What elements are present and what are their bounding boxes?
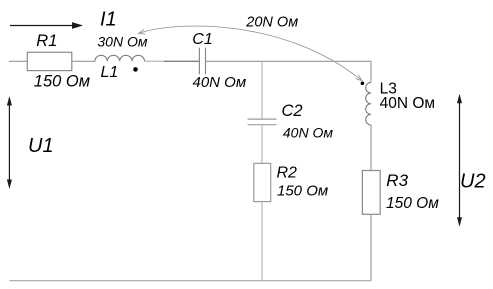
capacitor C2 — [248, 119, 277, 125]
svg-text:U1: U1 — [28, 135, 54, 157]
svg-text:40N Ом: 40N Ом — [193, 74, 247, 91]
svg-text:20N Ом: 20N Ом — [245, 14, 298, 30]
svg-text:R1: R1 — [36, 32, 57, 50]
voltage arrow U2 — [457, 94, 462, 227]
wire R2 to bottom — [261, 202, 263, 281]
svg-text:R3: R3 — [386, 171, 408, 190]
inductor L3 — [366, 82, 371, 125]
arc arrowhead left — [139, 29, 146, 34]
wire L1 to C1 — [145, 60, 165, 62]
svg-text:30N Ом: 30N Ом — [97, 34, 147, 50]
wire L3 to R3 — [370, 125, 372, 171]
wire segment to C1 — [164, 60, 199, 62]
svg-text:I1: I1 — [100, 9, 117, 31]
resistor R1 — [27, 52, 72, 70]
wire R3 to bottom — [370, 214, 372, 280]
polarity dot (L3) — [361, 82, 365, 86]
svg-text:40N Ом: 40N Ом — [283, 124, 333, 140]
arc arrowhead right — [355, 75, 362, 81]
inductor L1 — [95, 55, 145, 61]
wire right vertical top — [370, 61, 372, 82]
wire top-left — [9, 60, 27, 62]
resistor R3 — [362, 171, 380, 215]
voltage arrow U1 — [7, 96, 12, 189]
capacitor C1 — [199, 48, 205, 75]
resistor R2 — [254, 163, 271, 201]
svg-text:150 Ом: 150 Ом — [34, 73, 90, 91]
svg-text:R2: R2 — [277, 164, 298, 181]
svg-text:C2: C2 — [282, 102, 303, 120]
wire middle branch top — [261, 61, 263, 119]
svg-text:150 Ом: 150 Ом — [386, 195, 439, 212]
current arrow I1 — [10, 22, 83, 29]
svg-text:C1: C1 — [192, 31, 212, 48]
svg-text:L1: L1 — [101, 64, 119, 81]
bottom wire — [9, 280, 371, 282]
polarity dot (L1) — [133, 67, 138, 72]
svg-text:40N Ом: 40N Ом — [380, 95, 435, 112]
mutual inductance arc — [139, 26, 363, 81]
wire R1 to L1 — [72, 60, 95, 62]
wire C2 to R2 — [261, 125, 263, 164]
svg-text:U2: U2 — [460, 171, 486, 193]
svg-text:150 Ом: 150 Ом — [277, 183, 328, 200]
wire C1 to right corner — [206, 60, 372, 62]
